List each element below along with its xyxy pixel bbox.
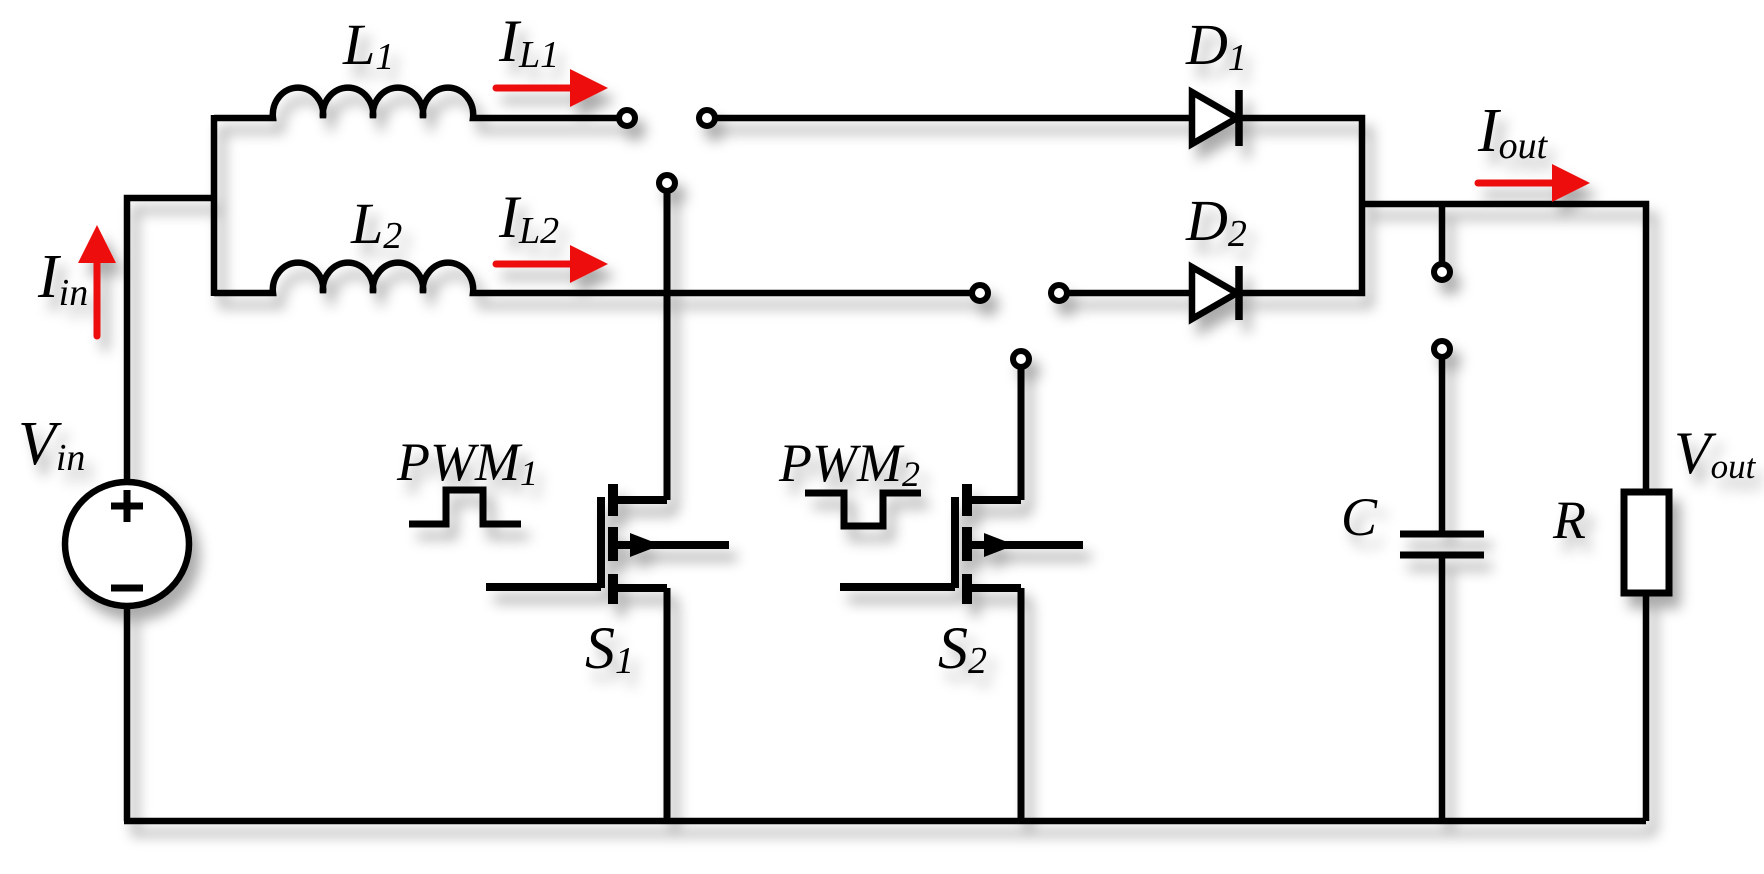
PWM2 waveform xyxy=(805,493,921,526)
arrow IL1 xyxy=(496,69,608,107)
wire output rail xyxy=(1359,204,1646,495)
diode D1 xyxy=(1192,90,1239,146)
switch 1 pole contact xyxy=(659,175,675,191)
wire resistor to bottom rail xyxy=(1643,593,1650,821)
svg-text:PWM1: PWM1 xyxy=(396,432,538,493)
wire switch2 to D2 xyxy=(1069,290,1192,297)
switch 2 pole contact xyxy=(1013,351,1029,367)
switch 1 right contact xyxy=(699,110,715,126)
wire tap to capacitor xyxy=(1439,359,1446,531)
inductor L2 xyxy=(214,263,970,293)
switch 2 left contact xyxy=(972,285,988,301)
wire S1 source to bottom rail xyxy=(664,588,671,821)
capacitor C xyxy=(1400,534,1484,555)
switch 2 right contact xyxy=(1051,285,1067,301)
svg-text:R: R xyxy=(1552,490,1586,550)
svg-text:PWM2: PWM2 xyxy=(778,433,920,494)
wire left rail bottom xyxy=(124,606,131,821)
mosfet S1 xyxy=(486,193,729,604)
arrow Iout xyxy=(1478,164,1590,202)
wire switch1 to D1 xyxy=(717,115,1192,122)
wire capacitor to bottom rail xyxy=(1439,558,1446,821)
node circle upper tap xyxy=(1434,264,1450,280)
arrow Iin xyxy=(78,225,116,336)
arrow IL2 xyxy=(496,245,608,283)
PWM1 waveform xyxy=(409,490,521,524)
wire S2 source to bottom rail xyxy=(1018,588,1025,821)
svg-text:C: C xyxy=(1341,487,1378,547)
wire inductor branch vertical xyxy=(211,115,218,296)
mosfet S2 xyxy=(840,369,1083,604)
wire output tap down xyxy=(1439,204,1446,262)
diode D2 xyxy=(1192,266,1239,320)
voltage source Vin xyxy=(65,482,189,606)
node circle lower tap xyxy=(1434,341,1450,357)
wire D1 to right branch and down to D2 xyxy=(1239,118,1362,293)
resistor R xyxy=(1624,492,1669,593)
inductor L1 xyxy=(214,88,617,118)
wire bottom rail xyxy=(124,818,1646,825)
wire left rail top xyxy=(127,198,217,482)
switch 1 left contact xyxy=(619,110,635,126)
